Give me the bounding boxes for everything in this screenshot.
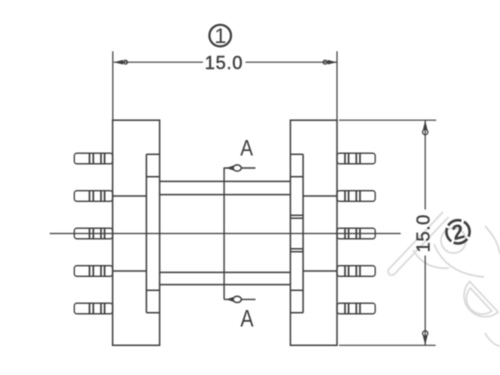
dim line left segment xyxy=(114,61,203,63)
svg-text:A: A xyxy=(240,135,253,160)
svg-text:A: A xyxy=(240,306,253,333)
dim arrow top xyxy=(423,120,428,135)
right strip divider 1 xyxy=(290,153,303,155)
section arrow bottom xyxy=(226,296,241,302)
watermark small U arc crossing dim line xyxy=(413,250,449,268)
section top horizontal xyxy=(224,167,255,169)
left strip divider 4 xyxy=(146,312,159,314)
left strip divider 3 xyxy=(146,289,159,291)
right flange outer rect xyxy=(290,120,337,345)
dim arrow right xyxy=(323,60,337,65)
left plate pin4 line xyxy=(113,270,147,272)
extension line bottom xyxy=(339,344,436,346)
right plate pin2 line xyxy=(303,195,337,197)
pin R3 xyxy=(337,228,375,239)
watermark half-moon D outer xyxy=(464,282,498,317)
watermark ring under circled 2 xyxy=(441,228,466,253)
pin R1 xyxy=(337,153,375,164)
right strip divider 4 xyxy=(290,312,303,314)
svg-text:15.0: 15.0 xyxy=(412,214,433,252)
winding tube line top inner xyxy=(160,194,291,196)
watermark P stem band outlined with round cap xyxy=(388,212,448,275)
right vertical dimension xyxy=(339,120,436,345)
section arrow top xyxy=(226,165,241,171)
watermark big bowl arc xyxy=(434,244,484,277)
dim arrow left xyxy=(114,60,128,65)
watermark logo (light gray, bottom right) xyxy=(388,212,500,346)
winding tube line top outer xyxy=(160,180,291,182)
top dimension xyxy=(113,51,337,120)
pin L3 xyxy=(74,228,112,239)
watermark arc right of circled 2 xyxy=(485,226,500,254)
left flange outer rect xyxy=(113,120,160,345)
right strip divider 2 xyxy=(290,176,303,178)
watermark small arc bottom right xyxy=(485,333,500,346)
svg-text:15.0: 15.0 xyxy=(205,52,243,73)
right strip divider 3 xyxy=(290,289,303,291)
section bottom horizontal xyxy=(224,298,255,300)
right plate pin4 line xyxy=(303,270,337,272)
section vertical line xyxy=(223,168,225,300)
left flange inner vertical xyxy=(145,154,147,312)
pin L5 xyxy=(74,303,112,314)
dim line bottom segment xyxy=(424,256,426,346)
svg-text:1: 1 xyxy=(214,24,226,48)
balloon circled 1 xyxy=(209,24,231,48)
pin R4 xyxy=(337,266,375,277)
centerline xyxy=(50,233,401,235)
left strip divider 2 xyxy=(146,176,159,178)
winding tube line bottom inner xyxy=(160,271,291,273)
extension line top xyxy=(339,119,436,121)
right flange inner vertical xyxy=(302,154,304,312)
watermark half-moon D inner xyxy=(466,288,491,314)
right strip divider pair b xyxy=(290,248,303,250)
pin L2 xyxy=(74,191,112,202)
pin L4 xyxy=(74,266,112,277)
left plate pin2 line xyxy=(113,195,147,197)
extension line left xyxy=(112,51,114,120)
dim line right segment xyxy=(246,61,338,63)
section line A-A xyxy=(224,168,255,300)
pin R5 xyxy=(337,303,375,314)
extension line right xyxy=(336,51,338,120)
left strip divider 1 xyxy=(146,153,159,155)
pin L1 xyxy=(74,153,112,164)
right strip divider pair a xyxy=(290,214,303,216)
dim arrow bottom xyxy=(423,331,428,346)
pins xyxy=(74,153,375,314)
dim line top segment xyxy=(424,120,426,209)
balloon circled 2 xyxy=(438,212,478,252)
pin R2 xyxy=(337,191,375,202)
winding tube line bottom outer xyxy=(160,284,291,286)
